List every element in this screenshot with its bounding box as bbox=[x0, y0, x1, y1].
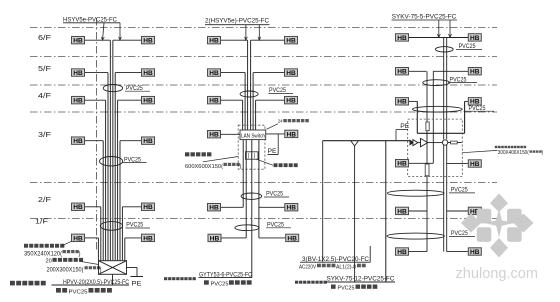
ground PE catv bbox=[396, 123, 409, 140]
svg-text:2(HSYV5e)-PVC25-FC: 2(HSYV5e)-PVC25-FC bbox=[205, 17, 269, 24]
label from city phone net bbox=[10, 281, 46, 286]
outlet HB 1F-3R bbox=[468, 248, 481, 256]
outlet HB 5F-2L bbox=[208, 69, 221, 77]
attenuator R3 lower bbox=[425, 164, 429, 176]
floor line 6F bbox=[30, 27, 497, 29]
wire down m1 bbox=[242, 140, 244, 208]
outlet HB 6F-2R bbox=[285, 36, 298, 44]
svg-text:HB: HB bbox=[209, 205, 219, 212]
outlet HB 2F-2R bbox=[285, 204, 298, 212]
wire outlet left 4F riser2 bbox=[221, 99, 243, 101]
floor line 5F bbox=[30, 56, 497, 58]
wire leader M1 bbox=[245, 25, 248, 41]
wire drop lower outlets bbox=[426, 133, 428, 251]
svg-text:HB: HB bbox=[73, 38, 83, 45]
outlet HB 5F-1L bbox=[72, 69, 85, 77]
wire trunk pair 2 middle riser bbox=[245, 73, 253, 130]
wire down m2 bbox=[245, 140, 247, 238]
outlet HB 5F-1R bbox=[142, 69, 155, 77]
wire outlet left 6F riser2 bbox=[221, 39, 248, 41]
wire drop 4F-R bbox=[464, 101, 466, 133]
svg-text:1/F: 1/F bbox=[35, 217, 48, 226]
wire outlet left 3F riser2 bbox=[221, 133, 240, 135]
value label PVC25 a3 bbox=[126, 222, 151, 229]
svg-text:HB: HB bbox=[397, 69, 407, 76]
svg-text:PE: PE bbox=[400, 123, 409, 130]
outlet HB 1F-2R bbox=[286, 234, 299, 242]
conduit mark PVC25 c5 bbox=[387, 233, 444, 239]
wire outlet left 1F riser3 bbox=[409, 251, 427, 253]
outlet HB 2F-1R bbox=[142, 203, 155, 211]
svg-text:3/F: 3/F bbox=[38, 130, 51, 139]
svg-text:HB: HB bbox=[143, 38, 153, 45]
label buried conduit note2 bbox=[204, 280, 252, 287]
wire drop 5F-L bbox=[426, 71, 428, 142]
wire outlet right 2F riser1 bbox=[122, 206, 141, 208]
outlet HB 3F-1L bbox=[72, 137, 85, 145]
svg-text:HB: HB bbox=[210, 235, 220, 242]
outlet HB 4F-2L bbox=[208, 96, 221, 104]
wire trunk pair 5 left riser bbox=[101, 207, 123, 261]
outlet HB 5F-3L bbox=[396, 68, 409, 76]
phone distribution box TB bbox=[99, 261, 127, 275]
svg-text:HSYV5e-PVC25-FC: HSYV5e-PVC25-FC bbox=[63, 16, 117, 23]
wire leader R1 bbox=[437, 20, 440, 38]
svg-text:HB: HB bbox=[209, 38, 219, 45]
svg-text:PVC25: PVC25 bbox=[269, 87, 286, 94]
floor line 4F bbox=[30, 84, 497, 86]
conduit mark PVC25 b3 bbox=[235, 225, 259, 231]
wire feeder down bbox=[112, 274, 114, 285]
outlet HB 6F-3L bbox=[396, 34, 409, 42]
outlet HB 4F-2R bbox=[285, 96, 298, 104]
svg-text:AC220V: AC220V bbox=[299, 265, 316, 271]
floor line 2F bbox=[30, 182, 497, 184]
outlet HB 3F-1R bbox=[142, 137, 155, 145]
svg-text:HB: HB bbox=[470, 161, 480, 168]
wire leader cabinet bbox=[203, 157, 238, 162]
svg-text:HB: HB bbox=[73, 98, 83, 105]
svg-text:zhulong.com: zhulong.com bbox=[456, 266, 539, 282]
svg-text:LAN Switch: LAN Switch bbox=[241, 133, 265, 139]
wire outlet right 6F riser1 bbox=[113, 39, 142, 41]
wire outlet right 5F riser2 bbox=[253, 72, 284, 74]
label 5/F bbox=[38, 64, 51, 73]
wire outlet left 3F riser3 bbox=[409, 162, 433, 164]
ground PE left riser bbox=[127, 268, 144, 288]
svg-text:SYKV-75-5-PVC25-FC: SYKV-75-5-PVC25-FC bbox=[392, 14, 457, 21]
value label PVC25 c3 bbox=[464, 105, 494, 112]
svg-text:HB: HB bbox=[470, 249, 480, 256]
wire outlet right 3F riser3 bbox=[447, 163, 469, 165]
outlet HB 4F-3R bbox=[468, 98, 481, 106]
value label PVC25 b3 bbox=[266, 221, 291, 228]
svg-text:HB: HB bbox=[287, 205, 297, 212]
label AC220V source bbox=[299, 264, 366, 271]
label buried conduit note3 bbox=[331, 285, 377, 292]
svg-text:): ) bbox=[240, 164, 242, 170]
arrow feed bbox=[410, 140, 414, 145]
outlet HB 1F-3L bbox=[396, 248, 409, 256]
label fiber splice box bbox=[257, 159, 298, 167]
svg-text:): ) bbox=[100, 267, 102, 274]
label buried conduit note1 bbox=[56, 288, 112, 296]
outlet HB 6F-1L bbox=[72, 36, 85, 44]
svg-text:): ) bbox=[79, 251, 81, 258]
wire outlet right 1F riser2 bbox=[259, 237, 286, 239]
outlet HB 3F-2L bbox=[208, 131, 221, 139]
value label PVC25 a1 bbox=[125, 85, 150, 92]
outlet HB 5F-2R bbox=[285, 69, 298, 77]
label phone box name bbox=[46, 258, 84, 265]
label cable 2(HSYV5e)-PVC25-FC bbox=[205, 17, 270, 24]
svg-text:HB: HB bbox=[143, 70, 153, 77]
outlet HB 2F-3L bbox=[396, 207, 409, 215]
svg-text:2/F: 2/F bbox=[38, 195, 51, 204]
label cable HSYV5e-PVC25-FC bbox=[63, 16, 120, 23]
label 4/F bbox=[38, 91, 51, 100]
wire outlet right 3F riser2 bbox=[266, 133, 285, 135]
floor axis bbox=[96, 18, 98, 250]
wire leader R2 bbox=[449, 20, 452, 38]
wire trunk pair 1 left riser bbox=[110, 40, 113, 261]
svg-text:HB: HB bbox=[209, 70, 219, 77]
switch U1 LAN Switch bbox=[240, 130, 266, 140]
wire outlet right 2F riser3 bbox=[447, 210, 469, 212]
outlet HB 4F-1L bbox=[72, 96, 85, 104]
attenuator R1 upper bbox=[426, 122, 429, 131]
svg-text:HB: HB bbox=[209, 132, 219, 139]
wire outlet right 4F riser1 bbox=[118, 99, 142, 101]
outlet HB 3F-3R bbox=[468, 160, 481, 168]
value label PVC25 b1 bbox=[269, 87, 294, 94]
wire outlet right 3F riser1 bbox=[120, 140, 142, 142]
wire outlet right 5F riser3 bbox=[433, 70, 468, 72]
value label PVC25 b2 bbox=[264, 191, 289, 198]
svg-text:HB: HB bbox=[286, 98, 296, 105]
outlet HB 2F-2L bbox=[208, 204, 221, 212]
wire down m3 fiber bbox=[251, 140, 253, 278]
wire outlet right 2F riser2 bbox=[259, 206, 285, 208]
wire outlet left 2F riser2 bbox=[221, 206, 243, 208]
svg-text:PVC25: PVC25 bbox=[267, 221, 284, 228]
wire CATV feed vertical bbox=[385, 141, 387, 282]
conduit mark PVC25 c3 bbox=[412, 106, 462, 112]
label network cabinet size bbox=[185, 163, 242, 170]
wire outlet right 6F riser2 bbox=[251, 39, 285, 41]
wire trunk pair 3 middle riser bbox=[243, 100, 256, 130]
wire down m4 bbox=[258, 140, 260, 238]
outlet HB 3F-2R bbox=[285, 130, 298, 138]
wire trunk catv lower bbox=[444, 145, 447, 252]
value label PVC25 c5 bbox=[449, 230, 475, 237]
svg-text:PE: PE bbox=[132, 280, 143, 287]
wire leader amp cabinet bbox=[462, 150, 497, 152]
svg-text:PVC25: PVC25 bbox=[266, 191, 283, 198]
label multimedia box name bbox=[24, 244, 64, 248]
label feeder SYKV-75-12 bbox=[326, 276, 395, 283]
wire outlet right 1F riser3 bbox=[447, 251, 469, 253]
svg-text:HB: HB bbox=[286, 38, 296, 45]
wire outlet right 4F riser2 bbox=[256, 99, 285, 101]
svg-text:200X300X150(: 200X300X150( bbox=[47, 267, 84, 274]
outlet HB 6F-1R bbox=[142, 36, 155, 44]
svg-text:HB: HB bbox=[287, 235, 297, 242]
terminator R2 bbox=[451, 141, 458, 144]
label cable SYKV-75-5-PVC25-FC bbox=[392, 14, 458, 21]
conduit mark PVC25 a1 bbox=[103, 85, 122, 92]
outlet HB 3F-3L bbox=[396, 160, 409, 168]
svg-text:HB: HB bbox=[73, 138, 83, 145]
svg-text:HB: HB bbox=[143, 204, 153, 211]
svg-text:HB: HB bbox=[397, 208, 407, 215]
svg-text:PVC25: PVC25 bbox=[126, 85, 143, 92]
fiber splice box F1 bbox=[246, 152, 259, 159]
outlet HB 4F-3L bbox=[396, 98, 409, 106]
svg-text:HB: HB bbox=[470, 35, 480, 42]
value label PVC25 c2 bbox=[448, 76, 477, 83]
svg-text:HB: HB bbox=[287, 131, 297, 138]
conduit mark PVC25 b1 bbox=[240, 91, 258, 97]
svg-text:HB: HB bbox=[73, 235, 83, 242]
svg-text:HB: HB bbox=[397, 99, 407, 106]
wire outlet right 1F riser1 bbox=[125, 237, 142, 239]
amplifier A1 stage2 bbox=[421, 138, 428, 146]
svg-text:HB: HB bbox=[397, 35, 407, 42]
label 1/F bbox=[35, 217, 48, 226]
svg-text:300X400X150(: 300X400X150( bbox=[498, 150, 529, 156]
svg-text:PVC25: PVC25 bbox=[211, 282, 229, 288]
wire SYKV feed vertical bbox=[354, 146, 356, 282]
label amp cabinet size bbox=[498, 150, 544, 156]
floor line 3F bbox=[30, 111, 497, 113]
wire trunk pair 4 left riser bbox=[103, 141, 120, 261]
value label PVC25 a2 bbox=[122, 156, 147, 163]
label feeder GYTY53 bbox=[199, 271, 253, 278]
wire AC feed vertical bbox=[322, 141, 324, 262]
outlet HB 6F-2L bbox=[208, 36, 221, 44]
wire leader multimedia box bbox=[62, 241, 72, 245]
label network cabinet name bbox=[185, 152, 211, 156]
svg-text:600X600X150(: 600X600X150( bbox=[185, 164, 223, 170]
outlet HB 2F-3R bbox=[468, 207, 481, 215]
label multimedia box size bbox=[24, 250, 81, 258]
label feeder HPVV bbox=[52, 279, 130, 286]
svg-text:PE: PE bbox=[268, 148, 277, 155]
svg-text:HB: HB bbox=[397, 161, 407, 168]
svg-text:HB: HB bbox=[209, 98, 219, 105]
svg-text:HB: HB bbox=[73, 70, 83, 77]
equipment cabinet dashed bbox=[238, 125, 265, 169]
svg-text:24: 24 bbox=[278, 119, 283, 124]
wire trunk pair 3 left riser bbox=[106, 100, 118, 261]
outlet HB 1F-1R bbox=[142, 234, 155, 242]
wire leader phone box bbox=[80, 261, 99, 264]
conduit mark PVC25 a2 bbox=[100, 157, 123, 166]
label 6/F bbox=[38, 33, 51, 42]
wire outlet left 2F riser3 bbox=[409, 210, 427, 212]
label 3/F bbox=[38, 130, 51, 139]
label from city catv net bbox=[295, 281, 327, 284]
wire outlet left 6F riser1 bbox=[85, 39, 110, 41]
svg-text:5/F: 5/F bbox=[38, 64, 51, 73]
svg-text:PVC25: PVC25 bbox=[69, 290, 88, 296]
svg-text:PVC25: PVC25 bbox=[338, 286, 355, 292]
label power 3BV bbox=[300, 256, 371, 263]
ground PE middle riser bbox=[268, 134, 279, 155]
wire drop 5F-R bbox=[432, 71, 434, 163]
junction V tap bbox=[351, 141, 358, 146]
svg-text:HB: HB bbox=[73, 204, 83, 211]
value label PVC25 c1 bbox=[456, 43, 482, 50]
outlet HB 6F-3R bbox=[468, 34, 481, 42]
conduit mark PVC25 a3 bbox=[100, 222, 122, 231]
wire leader M2 bbox=[258, 25, 261, 41]
svg-text:4/F: 4/F bbox=[38, 91, 51, 100]
label 2/F bbox=[38, 195, 51, 204]
wire trunk catv upper bbox=[444, 38, 447, 140]
splitter S1 bbox=[442, 140, 448, 145]
svg-text:HB: HB bbox=[397, 249, 407, 256]
wire trunk pair 1 middle riser bbox=[248, 40, 251, 130]
outlet HB 1F-2L bbox=[208, 234, 221, 242]
svg-text:20: 20 bbox=[46, 259, 52, 265]
wire outlet left 4F riser1 bbox=[85, 99, 106, 101]
wire outlet left 4F riser3 bbox=[409, 100, 417, 102]
wire outlet left 2F riser1 bbox=[85, 206, 101, 208]
label from city broadband net bbox=[164, 277, 196, 280]
svg-text:HB: HB bbox=[143, 235, 153, 242]
wire outlet left 5F riser2 bbox=[221, 72, 245, 74]
wire outlet left 1F riser1 bbox=[85, 237, 98, 239]
outlet HB 1F-1L bbox=[72, 234, 85, 242]
conduit mark PVC25 c1 bbox=[435, 47, 453, 52]
conduit mark PVC25 c2 bbox=[423, 80, 450, 86]
label amp cabinet name bbox=[495, 146, 526, 148]
conduit mark PVC25 c4 bbox=[387, 190, 444, 196]
svg-text:HB: HB bbox=[143, 138, 153, 145]
svg-text:HB: HB bbox=[470, 69, 480, 76]
wire outlet left 5F riser3 bbox=[409, 70, 426, 72]
watermark zhulong bbox=[456, 194, 539, 282]
wire outlet left 5F riser1 bbox=[85, 72, 108, 74]
value label PVC25 c4 bbox=[449, 187, 475, 194]
wire outlet 6F riser3 bbox=[409, 37, 468, 39]
outlet HB 4F-1R bbox=[142, 96, 155, 104]
svg-text:350X240X120(: 350X240X120( bbox=[24, 251, 62, 258]
conduit mark PVC25 b2 bbox=[241, 193, 262, 199]
svg-text:HB: HB bbox=[286, 70, 296, 77]
wire splitter out bbox=[448, 142, 451, 144]
wire terminator stub bbox=[457, 142, 462, 144]
floor line 1F bbox=[30, 218, 497, 220]
svg-text:AL1(2)-8: AL1(2)-8 bbox=[336, 265, 356, 271]
svg-text:HB: HB bbox=[143, 98, 153, 105]
label phone box size bbox=[47, 266, 102, 273]
wire bus amp bbox=[417, 132, 464, 134]
svg-text:PVC25: PVC25 bbox=[126, 222, 143, 229]
svg-text:6/F: 6/F bbox=[38, 33, 51, 42]
wire leader L1 bbox=[101, 23, 104, 40]
amplifier A1 stage1 bbox=[413, 140, 421, 146]
wire drop 4F-L bbox=[416, 101, 418, 133]
wire trunk pair 2 left riser bbox=[108, 73, 115, 261]
outlet HB 5F-3R bbox=[468, 68, 481, 76]
wire outlet right 4F riser3 bbox=[465, 100, 469, 102]
wire leader L2 bbox=[119, 23, 122, 40]
wire outlet left 3F riser1 bbox=[85, 140, 103, 142]
amplifier cabinet dashed bbox=[408, 119, 463, 176]
wire feed horizontal bbox=[323, 140, 411, 142]
label 24-port switch bbox=[266, 119, 308, 130]
wire outlet right 5F riser1 bbox=[115, 72, 141, 74]
wire outlet left 1F riser2 bbox=[222, 237, 247, 239]
wire AC stub bbox=[369, 246, 371, 262]
wire amp to splitter bbox=[428, 142, 443, 144]
wire trunk pair 6 left riser bbox=[98, 238, 124, 261]
outlet HB 2F-1L bbox=[72, 203, 85, 211]
